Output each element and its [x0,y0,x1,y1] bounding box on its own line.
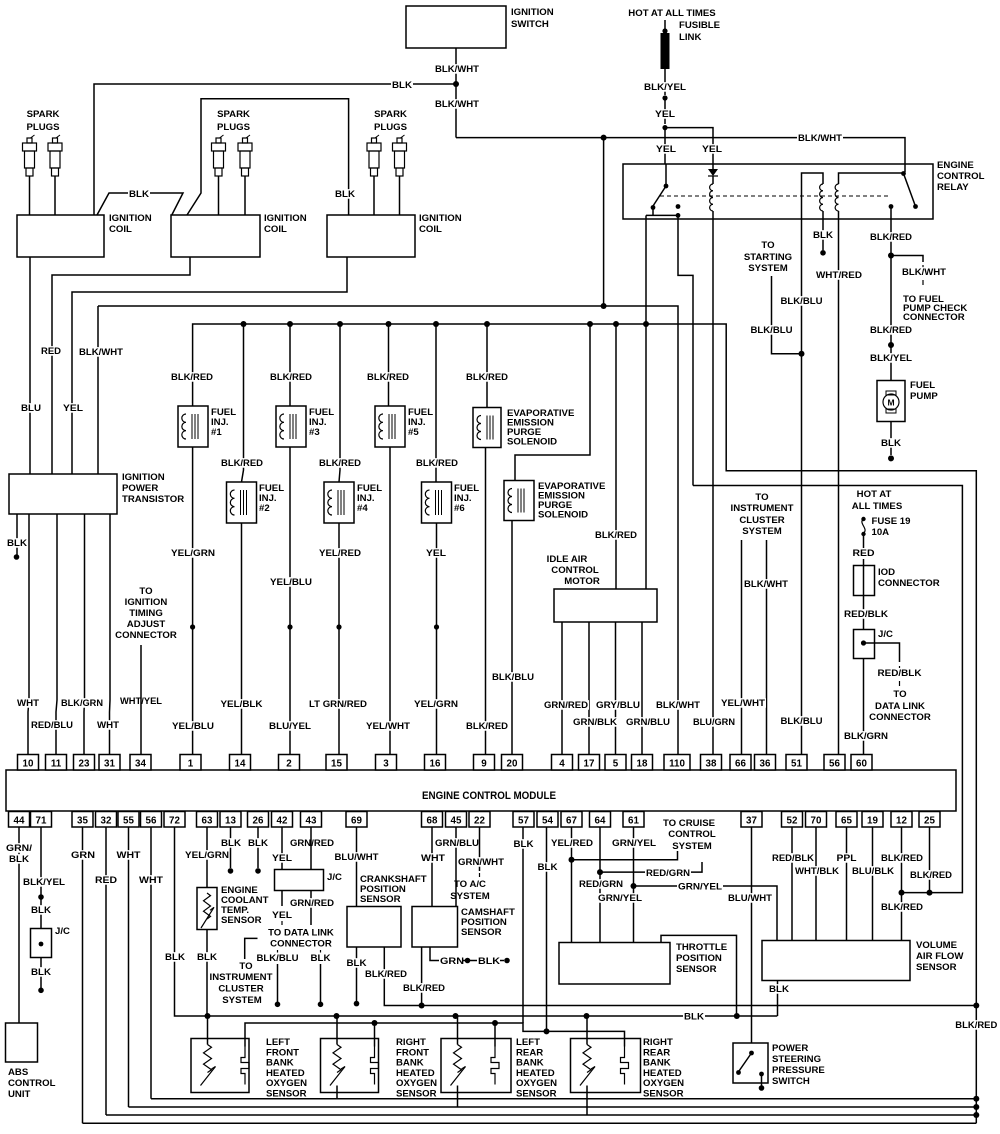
svg-text:SENSOR: SENSOR [221,915,262,926]
svg-text:BLK: BLK [392,80,412,91]
svg-text:YEL/RED: YEL/RED [551,838,593,849]
svg-text:M: M [887,398,894,408]
svg-text:INSTRUMENT: INSTRUMENT [731,503,794,514]
svg-text:COIL: COIL [419,224,442,235]
svg-text:BLK/BLU: BLK/BLU [257,953,299,964]
svg-text:11: 11 [51,759,62,770]
svg-text:YEL/BLU: YEL/BLU [270,577,312,588]
svg-text:4: 4 [559,759,565,770]
svg-text:RED/BLK: RED/BLK [772,853,814,864]
svg-text:14: 14 [235,759,246,770]
svg-text:BLK/RED: BLK/RED [881,853,923,864]
svg-text:3: 3 [383,759,389,770]
svg-text:BLU: BLU [21,403,41,414]
svg-text:IGNITION: IGNITION [511,7,554,18]
svg-text:COIL: COIL [264,224,287,235]
svg-text:61: 61 [628,816,639,827]
svg-text:IOD: IOD [878,567,895,578]
svg-text:9: 9 [481,759,487,770]
svg-text:72: 72 [169,816,180,827]
svg-text:5: 5 [613,759,619,770]
svg-text:IGNITION: IGNITION [125,597,168,608]
svg-text:IGNITION: IGNITION [419,213,462,224]
svg-text:PPL: PPL [837,853,857,864]
svg-text:10: 10 [23,759,34,770]
svg-text:BLK: BLK [881,438,901,449]
svg-text:WHT: WHT [421,853,445,864]
svg-text:TO: TO [761,240,775,251]
svg-text:J/C: J/C [55,926,70,937]
svg-text:BLK/WHT: BLK/WHT [744,579,788,590]
svg-text:YEL: YEL [702,144,722,155]
svg-text:IDLE AIR: IDLE AIR [547,554,588,565]
svg-text:SPARK: SPARK [27,109,60,120]
svg-text:CONNECTOR: CONNECTOR [115,630,177,641]
svg-text:YEL: YEL [655,109,675,120]
svg-text:BLK/BLU: BLK/BLU [492,672,534,683]
svg-text:BLK/RED: BLK/RED [270,372,312,383]
svg-text:BLK/RED: BLK/RED [365,969,407,980]
svg-text:37: 37 [746,816,757,827]
svg-text:15: 15 [331,759,342,770]
svg-text:BLU/WHT: BLU/WHT [335,852,379,863]
svg-text:RELAY: RELAY [937,182,969,193]
svg-text:GRN/RED: GRN/RED [544,700,588,711]
svg-text:J/C: J/C [878,629,893,640]
svg-text:RED: RED [853,548,875,559]
svg-text:16: 16 [430,759,441,770]
svg-text:PRESSURE: PRESSURE [772,1065,825,1076]
svg-text:BLK: BLK [9,854,29,865]
svg-text:COIL: COIL [109,224,132,235]
svg-text:SENSOR: SENSOR [461,927,502,938]
svg-text:BLK/RED: BLK/RED [319,458,361,469]
svg-text:SENSOR: SENSOR [396,1089,437,1100]
svg-text:BLK/RED: BLK/RED [595,530,637,541]
svg-text:BLK/RED: BLK/RED [416,458,458,469]
svg-text:YEL/RED: YEL/RED [319,548,361,559]
svg-text:GRN: GRN [71,850,95,861]
svg-text:TO DATA LINK: TO DATA LINK [268,928,334,939]
svg-text:RED/BLK: RED/BLK [844,609,888,620]
svg-text:SYSTEM: SYSTEM [742,526,781,537]
svg-text:56: 56 [146,816,157,827]
svg-text:70: 70 [811,816,822,827]
svg-text:CONTROL: CONTROL [551,565,599,576]
svg-text:TO CRUISE: TO CRUISE [663,818,716,829]
svg-text:SPARK: SPARK [217,109,250,120]
svg-text:IGNITION: IGNITION [122,472,165,483]
svg-text:BLK: BLK [813,230,833,241]
svg-text:WHT/RED: WHT/RED [816,270,862,281]
svg-text:BLK: BLK [478,956,500,967]
svg-text:IGNITION: IGNITION [264,213,307,224]
svg-text:TO: TO [139,586,153,597]
svg-text:WHT: WHT [17,698,39,709]
svg-text:CONTROL: CONTROL [8,1078,56,1089]
svg-text:ENGINE: ENGINE [937,160,974,171]
svg-text:1: 1 [188,759,194,770]
svg-text:CLUSTER: CLUSTER [739,515,784,526]
svg-text:17: 17 [584,759,595,770]
svg-text:BLK: BLK [7,538,27,549]
svg-text:GRN/YEL: GRN/YEL [612,838,656,849]
svg-text:YEL/BLK: YEL/BLK [221,699,263,710]
svg-text:BLK: BLK [769,984,789,995]
svg-text:BLK/WHT: BLK/WHT [435,99,479,110]
svg-text:2: 2 [286,759,292,770]
svg-text:RED/GRN: RED/GRN [646,868,690,879]
svg-text:43: 43 [306,816,317,827]
svg-text:PLUGS: PLUGS [26,122,60,133]
svg-text:BLU/YEL: BLU/YEL [269,721,311,732]
svg-text:YEL: YEL [63,403,83,414]
svg-text:SYSTEM: SYSTEM [222,995,261,1006]
svg-text:GRN: GRN [440,956,464,967]
svg-text:YEL: YEL [426,548,446,559]
svg-text:GRN/BLU: GRN/BLU [435,838,479,849]
svg-text:SWITCH: SWITCH [772,1076,810,1087]
svg-text:66: 66 [735,759,746,770]
svg-text:FUEL: FUEL [910,380,935,391]
svg-text:#2: #2 [259,503,270,514]
svg-text:WHT: WHT [97,720,119,731]
svg-text:GRN/RED: GRN/RED [290,838,334,849]
svg-text:PUMP: PUMP [910,391,938,402]
svg-text:22: 22 [474,816,485,827]
svg-text:12: 12 [896,816,907,827]
svg-text:GRN/: GRN/ [6,843,32,854]
svg-text:STEERING: STEERING [772,1054,821,1065]
svg-text:SWITCH: SWITCH [511,19,549,30]
svg-text:STARTING: STARTING [744,252,792,263]
svg-text:57: 57 [518,816,529,827]
svg-text:BLK: BLK [248,838,268,849]
svg-text:RED/BLU: RED/BLU [31,720,73,731]
svg-text:TO: TO [755,492,769,503]
svg-text:45: 45 [451,816,462,827]
svg-text:65: 65 [841,816,852,827]
svg-text:64: 64 [595,816,606,827]
svg-text:BLK/WHT: BLK/WHT [798,133,842,144]
svg-text:YEL: YEL [272,853,292,864]
svg-text:19: 19 [867,816,878,827]
svg-text:42: 42 [277,816,288,827]
svg-text:TO: TO [893,689,907,700]
svg-text:20: 20 [507,759,518,770]
svg-text:YEL/GRN: YEL/GRN [414,699,458,710]
svg-text:GRN/BLK: GRN/BLK [573,717,617,728]
svg-text:GRN/RED: GRN/RED [290,898,334,909]
svg-text:BLK/YEL: BLK/YEL [644,82,686,93]
svg-text:#5: #5 [408,427,419,438]
svg-text:BLK/BLU: BLK/BLU [781,296,823,307]
svg-text:HOT AT: HOT AT [857,489,892,500]
svg-text:ALL TIMES: ALL TIMES [852,501,903,512]
svg-text:SYSTEM: SYSTEM [672,841,711,852]
svg-text:BLK: BLK [165,952,185,963]
svg-text:BLK/BLU: BLK/BLU [781,716,823,727]
svg-text:BLK/WHT: BLK/WHT [902,267,946,278]
svg-text:YEL/WHT: YEL/WHT [721,698,765,709]
svg-text:34: 34 [135,759,146,770]
svg-text:GRN/YEL: GRN/YEL [678,882,722,893]
svg-text:25: 25 [924,816,935,827]
svg-text:PLUGS: PLUGS [374,122,408,133]
svg-text:SPARK: SPARK [374,109,407,120]
svg-text:BLK/RED: BLK/RED [910,870,952,881]
svg-text:CONTROL: CONTROL [668,829,716,840]
svg-text:BLK/GRN: BLK/GRN [844,731,888,742]
svg-text:35: 35 [77,816,88,827]
svg-text:60: 60 [856,759,867,770]
svg-text:MOTOR: MOTOR [564,576,600,587]
svg-text:SENSOR: SENSOR [360,894,401,905]
svg-text:56: 56 [829,759,840,770]
svg-text:TIMING: TIMING [129,608,163,619]
svg-text:TRANSISTOR: TRANSISTOR [122,494,184,505]
svg-text:51: 51 [791,759,802,770]
svg-text:BLK: BLK [311,953,331,964]
svg-text:BLK/RED: BLK/RED [955,1020,997,1031]
svg-text:23: 23 [79,759,90,770]
svg-text:BLK/WHT: BLK/WHT [79,347,123,358]
svg-text:32: 32 [101,816,112,827]
svg-text:INSTRUMENT: INSTRUMENT [210,972,273,983]
svg-text:BLK/RED: BLK/RED [367,372,409,383]
svg-text:LINK: LINK [679,32,701,43]
svg-text:RED/GRN: RED/GRN [579,879,623,890]
svg-text:DATA LINK: DATA LINK [875,701,925,712]
svg-text:BLK/WHT: BLK/WHT [656,700,700,711]
svg-text:UNIT: UNIT [8,1089,31,1100]
svg-text:TO: TO [239,961,253,972]
svg-text:BLK/RED: BLK/RED [221,458,263,469]
svg-text:GRN/BLU: GRN/BLU [626,717,670,728]
svg-text:BLK: BLK [31,905,51,916]
svg-text:BLU/WHT: BLU/WHT [728,893,772,904]
svg-text:BLK/RED: BLK/RED [870,325,912,336]
svg-text:13: 13 [225,816,236,827]
svg-text:BLK/WHT: BLK/WHT [435,64,479,75]
svg-text:ABS: ABS [8,1067,29,1078]
svg-text:J/C: J/C [327,872,342,883]
svg-text:44: 44 [14,816,25,827]
svg-text:#4: #4 [357,503,368,514]
svg-text:CONNECTOR: CONNECTOR [903,312,965,323]
svg-text:WHT/BLK: WHT/BLK [795,866,839,877]
svg-text:BLK/YEL: BLK/YEL [23,877,65,888]
svg-text:POWER: POWER [772,1043,808,1054]
svg-text:BLK/BLU: BLK/BLU [751,325,793,336]
svg-text:69: 69 [351,816,362,827]
svg-text:WHT: WHT [117,850,141,861]
svg-text:#6: #6 [454,503,465,514]
svg-text:36: 36 [760,759,771,770]
svg-text:BLK/GRN: BLK/GRN [61,698,103,709]
svg-text:BLK: BLK [538,862,558,873]
svg-text:HOT AT ALL TIMES: HOT AT ALL TIMES [628,8,716,19]
svg-text:SOLENOID: SOLENOID [507,437,557,448]
svg-text:67: 67 [566,816,577,827]
svg-text:68: 68 [427,816,438,827]
svg-text:BLK: BLK [197,952,217,963]
svg-text:RED: RED [95,875,117,886]
svg-text:#1: #1 [211,427,222,438]
svg-text:YEL/WHT: YEL/WHT [366,721,410,732]
svg-text:GRN/YEL: GRN/YEL [598,893,642,904]
svg-text:PLUGS: PLUGS [217,122,251,133]
svg-text:CONNECTOR: CONNECTOR [869,712,931,723]
svg-text:BLK/RED: BLK/RED [881,902,923,913]
svg-text:18: 18 [637,759,648,770]
svg-text:POSITION: POSITION [676,953,722,964]
svg-text:RED/BLK: RED/BLK [878,668,922,679]
svg-text:BLK/RED: BLK/RED [403,983,445,994]
svg-text:SYSTEM: SYSTEM [450,891,489,902]
svg-text:#3: #3 [309,427,320,438]
svg-text:SENSOR: SENSOR [916,962,957,973]
svg-text:CLUSTER: CLUSTER [218,984,263,995]
svg-text:AIR FLOW: AIR FLOW [916,951,964,962]
svg-text:TO A/C: TO A/C [454,879,486,890]
svg-text:YEL/BLU: YEL/BLU [172,721,214,732]
svg-text:CONNECTOR: CONNECTOR [878,578,940,589]
svg-text:GRY/BLU: GRY/BLU [596,700,640,711]
svg-text:CONTROL: CONTROL [937,171,985,182]
svg-text:10A: 10A [872,527,890,538]
svg-text:WHT: WHT [139,875,163,886]
svg-text:IGNITION: IGNITION [109,213,152,224]
svg-text:ENGINE CONTROL MODULE: ENGINE CONTROL MODULE [422,790,556,802]
svg-text:BLK: BLK [684,1012,704,1023]
svg-text:BLK/YEL: BLK/YEL [870,353,912,364]
svg-text:BLK/RED: BLK/RED [466,721,508,732]
svg-text:GRN/WHT: GRN/WHT [458,857,504,868]
svg-text:BLU/BLK: BLU/BLK [852,866,894,877]
svg-text:SYSTEM: SYSTEM [748,263,787,274]
svg-text:BLK: BLK [221,838,241,849]
svg-text:YEL: YEL [656,144,676,155]
svg-text:38: 38 [706,759,717,770]
svg-text:RED: RED [41,346,61,357]
svg-text:SENSOR: SENSOR [676,964,717,975]
svg-text:31: 31 [104,759,115,770]
svg-text:BLK: BLK [335,189,355,200]
svg-text:CONNECTOR: CONNECTOR [270,939,332,950]
svg-text:SENSOR: SENSOR [516,1089,557,1100]
svg-text:SOLENOID: SOLENOID [538,510,588,521]
svg-text:BLK: BLK [514,839,534,850]
svg-text:52: 52 [787,816,798,827]
svg-text:BLK: BLK [129,189,149,200]
svg-text:THROTTLE: THROTTLE [676,942,728,953]
svg-text:54: 54 [542,816,553,827]
svg-text:BLK/RED: BLK/RED [171,372,213,383]
svg-text:BLK/RED: BLK/RED [870,232,912,243]
svg-text:VOLUME: VOLUME [916,940,958,951]
svg-text:BLK: BLK [347,958,367,969]
svg-text:SENSOR: SENSOR [643,1089,684,1100]
svg-text:SENSOR: SENSOR [266,1089,307,1100]
svg-text:YEL: YEL [272,910,292,921]
svg-text:71: 71 [36,816,47,827]
svg-text:ADJUST: ADJUST [127,619,166,630]
svg-text:YEL/GRN: YEL/GRN [171,548,215,559]
svg-text:BLU/GRN: BLU/GRN [693,717,735,728]
svg-text:LT GRN/RED: LT GRN/RED [309,699,367,710]
svg-text:FUSE 19: FUSE 19 [872,516,911,527]
svg-text:26: 26 [253,816,264,827]
svg-text:BLK/RED: BLK/RED [466,372,508,383]
svg-text:63: 63 [202,816,213,827]
svg-text:BLK: BLK [31,967,51,978]
svg-text:FUSIBLE: FUSIBLE [679,20,721,31]
svg-text:YEL/GRN: YEL/GRN [185,850,229,861]
svg-text:110: 110 [669,759,685,770]
svg-text:POWER: POWER [122,483,158,494]
svg-text:55: 55 [123,816,134,827]
